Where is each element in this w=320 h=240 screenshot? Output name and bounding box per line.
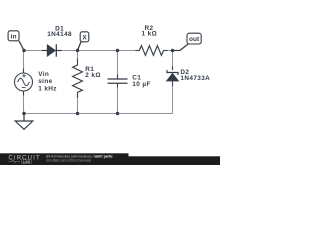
ground (15, 114, 33, 130)
port label out (173, 33, 202, 50)
wire: Vin top lead (23, 51, 25, 74)
wire: bottom rail (24, 113, 173, 115)
node junction C1 top (116, 49, 119, 52)
watermark text (46, 155, 113, 163)
label R1 value (85, 66, 101, 79)
svg-text:1N4733A: 1N4733A (180, 75, 210, 82)
svg-text:1 kHz: 1 kHz (38, 85, 57, 92)
svg-text:circuitlab.com/c2mbz2nanaxpk: circuitlab.com/c2mbz2nanaxpk (46, 159, 91, 163)
node junction X (76, 49, 79, 52)
label C1 value (132, 75, 150, 89)
wire: R1 bottom to bottom rail (77, 92, 79, 114)
wire: R1 bottom lead segment (77, 92, 79, 98)
wire: C1 bottom plate lead (117, 83, 119, 87)
wire: D2 anode lead (172, 81, 174, 86)
wire: C1 top plate lead (117, 75, 119, 80)
wire: R2 right lead (164, 50, 168, 52)
wire: node X to R1 top (77, 51, 79, 66)
svg-text:sine: sine (38, 78, 52, 85)
label D2 value (180, 69, 210, 82)
wire: R2 left lead (136, 50, 140, 52)
wire: C1 top lead (117, 51, 119, 79)
svg-text:2 kΩ: 2 kΩ (85, 72, 101, 79)
svg-text:in: in (11, 34, 17, 41)
svg-text:1 kΩ: 1 kΩ (141, 30, 157, 37)
zener diode D2 (167, 70, 179, 81)
node label X (78, 32, 89, 51)
port label in (8, 31, 24, 51)
node junction R1 bottom (76, 112, 79, 115)
wire: top rail right segment (R2 right to node out) (164, 50, 173, 52)
wire: top rail left segment (node in to R2 left) (24, 50, 139, 52)
svg-text:1N4148: 1N4148 (47, 31, 72, 38)
svg-text:Vin: Vin (38, 71, 49, 78)
label Vin value (38, 71, 57, 93)
watermark CircuitLab logo (8, 155, 40, 164)
svg-text:LAB: LAB (23, 160, 31, 164)
svg-text:X: X (82, 34, 87, 41)
node junction ground (22, 112, 25, 115)
resistor R1 (73, 65, 83, 92)
wire: Vin negative lead (23, 91, 25, 96)
wire: D2 bottom to bottom rail corner (172, 82, 174, 114)
wire: D2 cathode lead (172, 67, 174, 71)
node junction C1 bottom (116, 112, 119, 115)
watermark bar (short right section) (129, 156, 221, 165)
resistor R2 (139, 46, 163, 56)
watermark bar (tall left section) (0, 153, 129, 165)
node junction out (171, 49, 174, 52)
wire: C1 bottom lead (117, 84, 119, 114)
svg-text:out: out (189, 36, 200, 43)
wire: node out down to D2 (172, 51, 174, 70)
capacitor C1 (108, 79, 128, 83)
wire: Vin bottom lead (23, 91, 25, 114)
label R2 value (141, 25, 157, 38)
label D1 value (47, 26, 72, 38)
node junction in (22, 49, 25, 52)
diode D1 (42, 44, 62, 56)
source Vin (sine) (15, 73, 33, 91)
wire: Vin positive lead (23, 69, 25, 74)
svg-text:10 µF: 10 µF (132, 81, 150, 88)
wire: R1 top lead segment (77, 59, 79, 66)
